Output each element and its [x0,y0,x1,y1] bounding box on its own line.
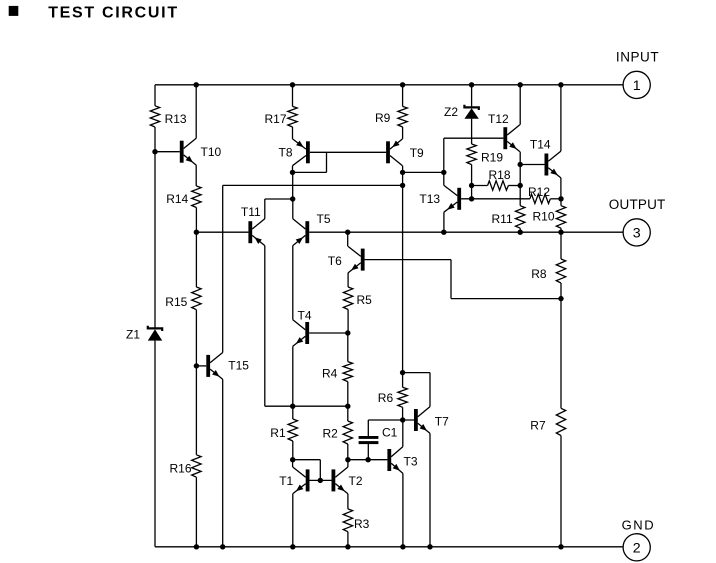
label T2 [349,474,363,488]
wire T8 collector lead [292,166,294,173]
transistor T3 [387,447,403,474]
wire emitter bus y406 [265,405,348,407]
resistor R8 [556,259,565,283]
wire T1 emitter to ground [292,494,294,547]
node R18 right junction [518,183,523,188]
wire R14 to R15 [195,208,197,288]
svg-text:R14: R14 [166,192,188,206]
wire bottom ground rail [155,546,623,548]
wire T15 collector vertical [222,185,224,352]
node T13 collector junction [441,170,446,175]
transistor T7 [414,407,430,434]
node T8 collector junction [290,170,295,175]
wire T10 collector to top rail [195,85,197,139]
wire R16 to ground rail [195,477,197,547]
svg-text:T13: T13 [419,192,440,206]
title text TEST CIRCUIT [48,4,179,21]
wire T13 collector to T12 base corner [443,138,445,172]
wire R2 top lead [347,406,349,421]
node R1 T1 collector junction [290,457,295,462]
wire left rail middle segment [154,127,156,329]
terminal 1 INPUT [623,71,650,98]
title bullet square [9,6,19,16]
wire T14 base [520,164,544,166]
svg-text:R9: R9 [375,111,391,125]
resistor R11 [516,206,525,229]
svg-text:T15: T15 [228,359,249,373]
resistor R17 [288,106,297,127]
label T15 [228,359,249,373]
svg-text:T12: T12 [488,112,509,126]
label R12 [528,185,550,199]
wire T10 base [155,151,180,153]
wire left rail lower segment [154,341,156,547]
wire R18 right lead [508,185,520,187]
label R19 [481,150,503,164]
svg-text:C1: C1 [382,426,398,440]
svg-text:T3: T3 [404,455,418,469]
svg-text:Z1: Z1 [126,328,140,342]
svg-text:R7: R7 [530,419,546,433]
label T9 [410,146,424,160]
wire T8 collector to T5 node [292,172,294,199]
wire T11 collector horizontal [265,198,293,200]
transistor T10 [180,138,196,165]
svg-text:Z2: Z2 [444,105,458,119]
transistor T8 [293,139,310,166]
resistor R16 [192,455,201,477]
wire R11 bottom lead [519,228,521,232]
wire T7 base [368,419,414,421]
wire R4 bottom lead [347,382,349,407]
wire output line [309,231,623,233]
svg-text:OUTPUT: OUTPUT [609,197,666,212]
node T7 emitter on ground rail [427,544,432,549]
label T6 [328,254,342,268]
wire T13 collector lead [443,172,445,185]
wire T1 T2 base drop [319,460,321,481]
wire horizontal y185 to T9 collector [223,184,403,186]
resistor R19 [467,144,476,165]
wire T4 emitter vertical [292,346,294,406]
node C1 bottom junction [365,457,370,462]
node T12 collector on top rail [518,82,523,87]
node Z2 on top rail [469,82,474,87]
resistor R18 [488,181,509,190]
svg-text:R1: R1 [270,426,286,440]
wire T15 emitter to ground [222,379,224,547]
svg-text:R5: R5 [357,293,373,307]
node R19 bottom junction [469,196,474,201]
label R14 [166,192,188,206]
wire T1 base to T2 base [310,479,332,481]
svg-text:1: 1 [633,78,641,94]
label T14 [530,138,551,152]
wire R2 bottom lead [347,444,349,460]
resistor R2 [343,421,352,444]
node R3 on ground rail [345,544,350,549]
wire T8 collector loop vertical [326,152,328,172]
wire junction to R7 [560,299,562,409]
node T10 base junction [152,149,157,154]
wire T1 collector lead [292,460,294,467]
label T3 [404,455,418,469]
wire R17 to T8 emitter [292,127,294,139]
svg-text:TEST CIRCUIT: TEST CIRCUIT [48,4,179,21]
wire T13 emitter lead [443,212,445,232]
wire base bus left segment [293,459,321,461]
svg-text:T8: T8 [279,145,293,159]
label R1 [270,426,286,440]
wire C1 top lead [367,420,369,436]
wire R17 to top rail [292,85,294,107]
wire T6 collector to output line [347,232,349,246]
node R7 on ground rail [558,544,563,549]
label R4 [322,366,338,380]
resistor R13 [150,106,159,127]
wire T8 collector loop horizontal [293,171,327,173]
terminal 2 GND [623,534,650,561]
node T14 collector on top rail [558,82,563,87]
wire T9 to T13 collector [403,171,444,173]
wire R3 to ground rail [347,532,349,547]
transistor T11 [248,219,264,246]
svg-text:3: 3 [633,226,641,242]
resistor R14 [192,186,201,208]
node R18 left junction [469,183,474,188]
wire R15 to R16 [195,310,197,455]
label T12 [488,112,509,126]
label T11 [241,205,261,219]
svg-text:T4: T4 [298,309,312,323]
wire T5 collector vertical [292,199,294,219]
label R7 [530,419,546,433]
svg-text:R3: R3 [354,517,370,531]
label OUTPUT [609,197,666,212]
svg-text:R2: R2 [323,427,339,441]
node T6 collector on output line [345,230,350,235]
resistor R1 [288,419,297,441]
node T1 emitter on ground rail [290,544,295,549]
wire T2 collector lead [347,460,349,467]
label T1 [279,474,293,488]
svg-text:T11: T11 [241,205,261,219]
label T13 [419,192,440,206]
transistor T13 [444,185,461,212]
wire top supply rail [155,84,623,86]
wire R10 top lead [560,199,562,206]
wire R19 bottom lead [471,165,473,199]
node R17 on top rail [290,82,295,87]
transistor T2 [332,467,348,494]
node R10 R8 on output line [558,230,563,235]
svg-text:R19: R19 [481,150,503,164]
node R9 on top rail [400,82,405,87]
node T4 emitter on bus y406 [290,404,295,409]
node R16 on ground rail [194,544,199,549]
svg-text:T2: T2 [349,474,363,488]
wire R1 top lead [292,406,294,419]
transistor T5 [293,219,309,246]
node T12 emitter T14 base junction [518,162,523,167]
label C1 [382,426,398,440]
wire T7 collector horizontal [403,372,430,374]
node R11 on output line [518,230,523,235]
node T7 collector junction [400,370,405,375]
transistor T12 [503,125,519,152]
transistor T15 [206,353,222,380]
wire left rail upper segment [154,85,156,106]
wire base bus right segment [348,459,388,461]
wire T11 emitter vertical [264,246,266,407]
node R4 on bus y406 [345,404,350,409]
wire T15 base [196,365,206,367]
capacitor C1 top plate [359,436,379,439]
label R15 [165,295,187,309]
wire T3 emitter to ground [402,473,404,546]
svg-text:T6: T6 [328,254,342,268]
label R10 [533,210,555,224]
terminal 3 OUTPUT [623,219,650,246]
wire T11 collector vertical [264,199,266,219]
svg-text:R10: R10 [533,210,555,224]
wire T2 emitter to R3 [347,494,349,509]
wire T11 base [196,231,248,233]
resistor R9 [398,106,407,127]
resistor R5 [343,287,352,310]
label R3 [354,517,370,531]
wire T6 base vertical jog [450,260,452,299]
zener Z1 [148,326,162,341]
wire T3 collector vertical [402,420,404,447]
label R2 [323,427,339,441]
node T1 T2 base junction [318,478,323,483]
resistor R15 [192,287,201,310]
svg-text:R12: R12 [528,185,550,199]
node T13 emitter on output line [441,230,446,235]
wire T7 emitter to ground [429,433,431,546]
wire T14 collector to top rail [560,85,562,151]
node T10 collector on top rail [194,82,199,87]
label INPUT [616,49,659,64]
transistor T4 [293,320,309,347]
label T5 [317,212,331,226]
label GND [622,517,656,532]
svg-text:T7: T7 [435,414,449,428]
wire T6 base to R8 node [451,298,561,300]
zener Z2 [464,105,478,119]
resistor R7 [556,408,565,435]
svg-text:T10: T10 [201,145,222,159]
wire Z2 top lead [471,85,473,108]
capacitor C1 bottom plate [359,441,379,444]
wire T12 emitter lead [519,152,521,165]
wire T6 base horizontal [365,259,451,261]
node T15 base junction [194,363,199,368]
resistor R10 [556,206,565,229]
label T7 [435,414,449,428]
label R8 [531,267,547,281]
wire R12 right lead [550,198,561,200]
wire R6 bottom lead [402,407,404,420]
svg-text:R15: R15 [165,295,187,309]
wire T7 collector vertical [429,373,431,407]
label T10 [201,145,222,159]
node R2 T2 collector junction [345,457,350,462]
svg-text:T5: T5 [317,212,331,226]
svg-text:2: 2 [633,540,641,556]
transistor T9 [386,139,402,166]
label R18 [489,168,511,182]
node T9 collector lower junction [400,183,405,188]
svg-text:INPUT: INPUT [616,49,659,64]
svg-text:R8: R8 [531,267,547,281]
transistor T14 [545,151,561,178]
svg-text:R18: R18 [489,168,511,182]
svg-text:GND: GND [622,517,656,532]
label Z2 [444,105,458,119]
wire T12 base [444,137,504,139]
node R8 bottom junction [558,296,563,301]
wire T14 emitter lead [560,178,562,199]
label Z1 [126,328,140,342]
svg-text:R4: R4 [322,366,338,380]
wire T13 base to R12 [461,198,530,200]
transistor T6 [348,246,365,273]
wire R9 to top rail [402,85,404,107]
wire T4 base [309,332,348,334]
label R9 [375,111,391,125]
label R5 [357,293,373,307]
wire R4 top lead [347,333,349,362]
label T4 [298,309,312,323]
label R16 [170,462,192,476]
wire T8 base to T9 base [310,151,386,153]
svg-text:R17: R17 [265,112,287,126]
wire R18 left lead [472,185,488,187]
transistor T1 [293,467,310,494]
wire T12 collector to top rail [519,85,521,125]
wire output line to R8 [560,232,562,259]
wire R5 to T4 base node [347,310,349,334]
resistor R12 [530,194,551,203]
node T15 emitter on ground rail [220,544,225,549]
wire T5 emitter vertical [292,246,294,320]
resistor R6 [398,387,407,407]
wire Z2 to R19 [471,119,473,144]
node T3 emitter on ground rail [400,544,405,549]
label T8 [279,145,293,159]
wire R8 to junction [560,283,562,299]
wire R9 to T9 emitter [402,127,404,139]
svg-text:T1: T1 [279,474,293,488]
wire R18 node to R11 [519,186,521,206]
svg-text:T9: T9 [410,146,424,160]
node T5 T11 collector junction [290,196,295,201]
label R13 [165,112,187,126]
svg-text:R6: R6 [378,391,394,405]
node T14 emitter R12 junction [558,196,563,201]
wire T12 emitter to R18 node [519,165,521,186]
label R17 [265,112,287,126]
node T11 base junction [194,230,199,235]
wire R1 bottom lead [292,441,294,460]
wire R10 bottom lead [560,228,562,232]
wire T9 collector vertical long [402,166,404,388]
svg-text:R16: R16 [170,462,192,476]
label R6 [378,391,394,405]
wire T10 emitter to R14 [195,165,197,186]
label R11 [492,212,513,226]
node T4 base R4 junction [345,330,350,335]
wire T6 emitter to R5 [347,273,349,287]
resistor R3 [343,509,352,532]
svg-text:R11: R11 [492,212,513,226]
node T9 collector upper junction [400,170,405,175]
resistor R4 [343,362,352,382]
wire R7 to ground rail [560,436,562,547]
wire C1 bottom lead [367,444,369,460]
svg-text:R13: R13 [165,112,187,126]
node T7 base junction [400,417,405,422]
svg-text:T14: T14 [530,138,551,152]
